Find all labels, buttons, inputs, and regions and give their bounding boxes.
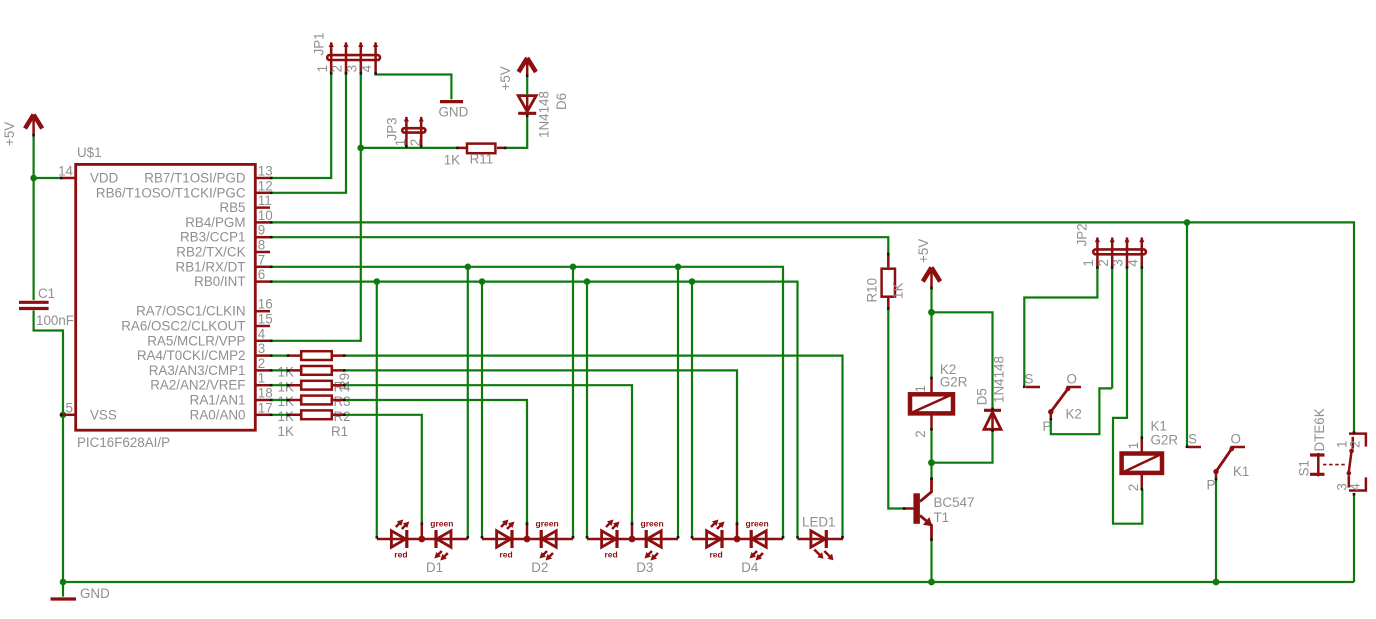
- pin 10 stub: [255, 221, 270, 224]
- resistor R3 (RA2 row): [287, 381, 345, 390]
- svg-text:D5: D5: [975, 388, 990, 405]
- svg-text:D2: D2: [531, 560, 548, 575]
- node pin6/D2 tee: [479, 278, 486, 285]
- wire RA1 pin18 to R2: [270, 399, 288, 401]
- svg-text:+5V: +5V: [916, 239, 931, 263]
- wire D3 left column (RB0): [586, 282, 588, 538]
- svg-text:9: 9: [258, 223, 265, 238]
- wire RA0 pin17 to R1: [270, 414, 288, 416]
- node pin6/D3 tee: [584, 278, 591, 285]
- svg-text:R3: R3: [334, 394, 351, 409]
- svg-text:R10: R10: [865, 278, 880, 303]
- pin 7 stub: [255, 266, 270, 269]
- svg-text:1K: 1K: [278, 424, 294, 439]
- svg-text:RB1/RX/DT: RB1/RX/DT: [176, 259, 246, 274]
- node GND tee: [60, 579, 67, 586]
- svg-text:10: 10: [258, 208, 273, 223]
- svg-text:RA6/OSC2/CLKOUT: RA6/OSC2/CLKOUT: [121, 319, 245, 334]
- wire JP3 row to R11: [361, 147, 457, 149]
- relay coil K2 G2R: [910, 362, 968, 438]
- svg-text:RB6/T1OSO/T1CKI/PGC: RB6/T1OSO/T1CKI/PGC: [96, 185, 246, 200]
- svg-text:14: 14: [58, 164, 73, 179]
- svg-text:R1: R1: [331, 424, 348, 439]
- connector JP3 (pinhead 1x2): [385, 117, 426, 147]
- switch contact K1 (relay contact): [1188, 432, 1250, 493]
- svg-text:4: 4: [1125, 259, 1140, 267]
- capacitor C1: [19, 286, 74, 328]
- pin 17 stub: [255, 414, 270, 417]
- node VDD tee: [30, 175, 37, 182]
- wire R3 output to D3 mid: [345, 385, 632, 524]
- svg-text:S1: S1: [1297, 460, 1312, 476]
- op-amp U1 : microcontroller U$1 PIC16F628AI/P box: [76, 145, 256, 450]
- node K1-P/GND tee: [1213, 579, 1220, 586]
- wire RA3 pin2 to R4: [270, 369, 288, 371]
- svg-text:U$1: U$1: [77, 145, 102, 160]
- svg-text:4: 4: [258, 326, 266, 341]
- svg-text:PIC16F628AI/P: PIC16F628AI/P: [77, 435, 170, 450]
- svg-text:RB4/PGM: RB4/PGM: [185, 215, 245, 230]
- svg-text:D1: D1: [426, 560, 443, 575]
- svg-text:RA7/OSC1/CLKIN: RA7/OSC1/CLKIN: [136, 304, 245, 319]
- LED LED1: [798, 530, 844, 560]
- transistor Q1 : T1 BC547: [904, 478, 975, 540]
- wire K2 contact P to JP2 pin2: [1051, 388, 1112, 434]
- resistor R10: [865, 254, 906, 311]
- wire D2 left column (RB0): [481, 282, 483, 538]
- pin tips JP3: [404, 116, 424, 121]
- svg-text:1: 1: [913, 385, 928, 392]
- node pin7/D2 tee: [570, 264, 577, 271]
- svg-text:K2: K2: [1066, 407, 1082, 422]
- svg-text:1N4148: 1N4148: [992, 356, 1007, 403]
- connector JP1 (pinhead 1x4): [312, 32, 381, 73]
- diode D6 1N4148: [518, 91, 569, 138]
- wire VSS stub link: [61, 414, 62, 416]
- svg-text:VDD: VDD: [90, 171, 119, 186]
- wire D1 left column (RB0): [376, 282, 378, 538]
- wire C1 bottom to VSS/GND column: [34, 311, 63, 583]
- svg-text:LED1: LED1: [802, 515, 836, 530]
- pin tips JP1: [329, 42, 379, 47]
- svg-text:R2: R2: [334, 409, 351, 424]
- pin 5 VSS stub: [61, 414, 76, 417]
- node pin7/D3 tee: [675, 264, 682, 271]
- svg-text:RA3/AN3/CMP1: RA3/AN3/CMP1: [149, 363, 246, 378]
- svg-text:GND: GND: [80, 586, 110, 601]
- pin 14 VDD stub: [61, 177, 76, 180]
- node RB4/K1-S tee: [1184, 219, 1191, 226]
- svg-text:1K: 1K: [278, 365, 294, 380]
- wire GND bus bottom: [63, 581, 1354, 583]
- wire D4 left column (RB0): [691, 282, 693, 538]
- wire JP2 pin3 to K1 coil pin2: [1113, 268, 1142, 524]
- svg-text:2: 2: [1096, 259, 1111, 266]
- svg-text:2: 2: [913, 430, 928, 437]
- wire JP1 pin3 to RA5 (pin 4): [270, 74, 361, 341]
- wire JP2 pin1 to K2 contact S: [1024, 268, 1097, 387]
- svg-text:1: 1: [315, 65, 330, 72]
- svg-text:5: 5: [66, 400, 73, 415]
- svg-text:RB3/CCP1: RB3/CCP1: [180, 230, 246, 245]
- svg-text:P: P: [1207, 478, 1216, 493]
- node VSS tee: [60, 412, 67, 419]
- node K2 pin2/D5/collector tee: [928, 459, 935, 466]
- pin 12 stub: [255, 192, 270, 195]
- svg-text:R11: R11: [470, 152, 494, 167]
- wire S1 pin4 to GND: [1353, 494, 1355, 582]
- svg-text:1K: 1K: [444, 153, 460, 168]
- svg-text:GND: GND: [439, 105, 469, 120]
- svg-text:6: 6: [258, 267, 265, 282]
- wire R2 output to D2 mid: [345, 400, 527, 524]
- svg-text:16: 16: [258, 297, 273, 312]
- switch S1 DTE6K: [1297, 408, 1366, 490]
- svg-text:JP2: JP2: [1075, 223, 1090, 246]
- pin 11 stub: [255, 206, 270, 209]
- svg-text:1K: 1K: [278, 379, 294, 394]
- resistor labels (partially hidden behind bodies): [278, 365, 353, 439]
- LED pair D1 (red/green): [377, 519, 468, 561]
- LED pair D4 (red/green): [692, 519, 783, 561]
- wire JP1 pin4 to GND: [376, 74, 452, 100]
- wire R4 output to D4 mid: [345, 370, 737, 524]
- node pin6/D4 tee: [689, 278, 696, 285]
- wire R5 output to LED1 right: [345, 356, 843, 538]
- wire T1 emitter to GND: [930, 540, 932, 582]
- ground GND (near JP1): [439, 102, 469, 120]
- svg-text:RA5/MCLR/VPP: RA5/MCLR/VPP: [147, 333, 245, 348]
- svg-text:11: 11: [258, 193, 272, 208]
- LED pair D3 (red/green): [587, 519, 678, 561]
- wire JP1 pin1 to RB7 (pin 13): [270, 74, 331, 179]
- wire +5V down to K2 coil pin1: [930, 288, 932, 378]
- pin 16 stub: [255, 310, 270, 313]
- svg-text:RA2/AN2/VREF: RA2/AN2/VREF: [150, 378, 245, 393]
- supply +5V (relay K2 branch): [916, 239, 940, 288]
- svg-text:T1: T1: [934, 510, 950, 525]
- svg-text:JP1: JP1: [312, 32, 327, 55]
- pin 2 stub: [255, 369, 270, 372]
- node emitter/GND tee: [928, 579, 935, 586]
- svg-text:4: 4: [359, 64, 374, 72]
- svg-text:RA1/AN1: RA1/AN1: [190, 393, 246, 408]
- LED pair D2 (red/green): [482, 519, 573, 561]
- svg-text:RA4/T0CKI/CMP2: RA4/T0CKI/CMP2: [137, 348, 246, 363]
- pin connection nibs: [32, 72, 1355, 541]
- svg-text:RB5: RB5: [219, 200, 245, 215]
- pin 13 stub: [255, 177, 270, 180]
- resistor R1 (RA0 row): [287, 410, 345, 419]
- svg-text:+5V: +5V: [2, 122, 17, 146]
- wire JP2 pin4 to K1 coil pin1: [1141, 268, 1143, 437]
- svg-text:D3: D3: [636, 560, 653, 575]
- wire D3 right column (RB1): [677, 267, 679, 538]
- wire RA4 pin3 to R5: [270, 355, 288, 357]
- wire JP1 pin2 to RB6 (pin 12): [270, 74, 346, 193]
- pin tips JP2: [1095, 237, 1145, 242]
- svg-text:1K: 1K: [278, 394, 294, 409]
- svg-text:S: S: [1188, 432, 1197, 447]
- wire R11 to D6 column: [506, 116, 528, 147]
- pin 15 stub: [255, 325, 270, 328]
- svg-text:+5V: +5V: [498, 66, 513, 90]
- svg-text:S: S: [1025, 372, 1034, 387]
- svg-text:O: O: [1067, 372, 1077, 387]
- node pin7/D1 tee: [465, 264, 472, 271]
- svg-text:2: 2: [330, 65, 345, 72]
- svg-text:VSS: VSS: [90, 407, 117, 422]
- wire net RB0 (pin6) row: [270, 282, 798, 538]
- svg-text:G2R: G2R: [1151, 433, 1179, 448]
- svg-text:2: 2: [1348, 441, 1363, 448]
- svg-text:3: 3: [258, 341, 265, 356]
- ground GND (bottom left): [51, 582, 111, 601]
- wire RB4 net down to K1 contact S: [1186, 222, 1188, 446]
- svg-text:1N4148: 1N4148: [537, 91, 552, 138]
- svg-text:O: O: [1231, 432, 1241, 447]
- node pin6/D1 tee: [374, 278, 381, 285]
- svg-text:7: 7: [258, 252, 265, 267]
- wire R1 output to D1 mid: [345, 415, 422, 524]
- svg-text:BC547: BC547: [934, 495, 975, 510]
- diode D5 1N4148 (flyback): [975, 356, 1007, 429]
- pin 18 stub: [255, 399, 270, 402]
- svg-text:DTE6K: DTE6K: [1312, 408, 1327, 451]
- wire VDD branch: [34, 177, 61, 179]
- wire R10 to T1 base: [888, 309, 904, 509]
- svg-text:1K: 1K: [891, 283, 906, 299]
- svg-text:1: 1: [258, 371, 265, 386]
- svg-text:D4: D4: [741, 560, 759, 575]
- pin 1 stub: [255, 384, 270, 387]
- wire +5V vertical to C1: [32, 135, 34, 300]
- svg-text:2: 2: [258, 356, 265, 371]
- svg-text:K1: K1: [1151, 419, 1167, 434]
- connector JP2 (pinhead 1x4): [1075, 223, 1146, 268]
- resistor R2 (RA1 row): [287, 396, 345, 405]
- svg-text:17: 17: [258, 400, 273, 415]
- node +5V/D5 tee: [928, 309, 935, 316]
- wire K1 contact P to GND: [1215, 479, 1217, 582]
- svg-text:1: 1: [1126, 442, 1141, 449]
- svg-text:2: 2: [408, 139, 423, 146]
- resistor R5 (RA4 row): [287, 351, 345, 360]
- svg-text:D6: D6: [554, 93, 569, 110]
- svg-text:RA0/AN0: RA0/AN0: [190, 407, 246, 422]
- svg-text:15: 15: [258, 312, 273, 327]
- svg-text:2: 2: [1126, 484, 1141, 491]
- wire RA2 pin1 to R3: [270, 384, 288, 386]
- pin 6 stub: [255, 280, 270, 283]
- wire RB3 (pin9) to R10: [270, 237, 888, 253]
- supply +5V (left, feeding VDD): [2, 115, 42, 147]
- wire D2 right column (RB1): [572, 267, 574, 538]
- wire D6 to +5V: [526, 76, 528, 95]
- switch contact K2 (relay contact): [1025, 372, 1082, 435]
- svg-text:18: 18: [258, 386, 273, 401]
- svg-text:RB2/TX/CK: RB2/TX/CK: [176, 245, 245, 260]
- resistor R4 (RA3 row): [287, 366, 345, 375]
- svg-text:RB0/INT: RB0/INT: [194, 274, 245, 289]
- svg-text:1: 1: [1081, 259, 1096, 266]
- node JP3 line tee on JP1 pin3 column: [357, 145, 364, 152]
- svg-text:R4: R4: [334, 379, 352, 394]
- svg-text:12: 12: [258, 178, 273, 193]
- svg-text:3: 3: [1111, 259, 1126, 266]
- wire JP2 pin2 down: [1111, 268, 1113, 389]
- svg-text:13: 13: [258, 164, 273, 179]
- pin 4 stub: [255, 340, 270, 343]
- svg-text:C1: C1: [38, 286, 55, 301]
- wire D5 bottom to coil node: [932, 431, 993, 463]
- supply +5V (above D6): [498, 58, 536, 91]
- wire net RB4 (pin10) long row to S1: [270, 222, 1354, 432]
- svg-text:1K: 1K: [278, 409, 294, 424]
- svg-text:8: 8: [258, 238, 265, 253]
- svg-text:K1: K1: [1233, 464, 1249, 479]
- wire K2 pin2 down to collector node: [930, 430, 932, 479]
- svg-text:3: 3: [344, 65, 359, 72]
- wire net RB1 (pin7) row: [270, 267, 783, 538]
- relay coil K1 G2R: [1122, 419, 1179, 492]
- svg-text:RB7/T1OSI/PGD: RB7/T1OSI/PGD: [144, 171, 246, 186]
- wire D1 right column (RB1): [467, 267, 469, 538]
- resistor R11: [444, 144, 506, 168]
- svg-text:4: 4: [1348, 483, 1363, 491]
- pin 9 stub: [255, 236, 270, 239]
- svg-text:100nF: 100nF: [36, 313, 74, 328]
- svg-text:JP3: JP3: [385, 117, 400, 140]
- svg-text:G2R: G2R: [940, 375, 968, 390]
- wire +5V branch to D5 top: [932, 312, 993, 409]
- pin 3 stub: [255, 354, 270, 357]
- pin 8 stub: [255, 251, 270, 254]
